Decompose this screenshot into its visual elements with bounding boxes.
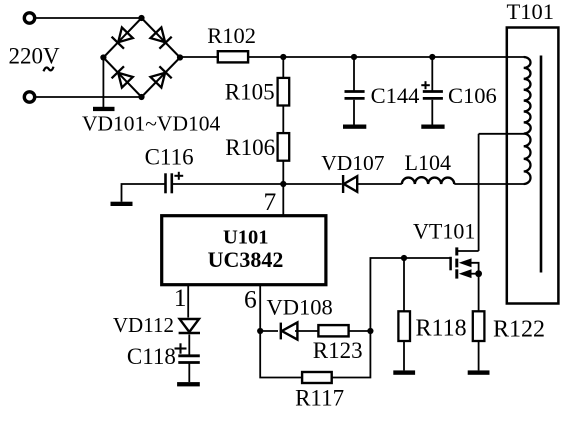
svg-text:T101: T101 [507, 0, 555, 24]
resistor R106 [278, 133, 290, 161]
terminal bottom [24, 92, 34, 102]
svg-text:R102: R102 [207, 23, 256, 48]
svg-text:VT101: VT101 [413, 218, 475, 243]
wire top terminal to bridge top [35, 17, 141, 19]
wire R123 node up to gate wire [370, 258, 450, 331]
inductor L104 [402, 177, 455, 184]
VT101 source arrow lower [459, 269, 472, 278]
svg-text:VD108: VD108 [267, 295, 333, 320]
node bridge top [138, 15, 144, 21]
VT101 lower arrow lead [472, 273, 479, 275]
resistor R105 [278, 78, 290, 106]
svg-text:VD112: VD112 [113, 313, 174, 337]
diode VD102 (top-right arm, cathode to right node) [150, 27, 172, 49]
wire VD108 to R123 [295, 330, 318, 332]
wire C144 from bus [353, 57, 355, 91]
svg-text:7: 7 [264, 187, 277, 216]
label ~ under 220V [44, 67, 54, 72]
node pin6 junction [257, 328, 263, 334]
node bridge left [100, 54, 106, 60]
ground (R122) [468, 370, 490, 374]
node bus/C106 [429, 54, 435, 60]
svg-text:R117: R117 [295, 385, 344, 410]
op-amp U101 box [162, 216, 326, 285]
svg-text:1: 1 [174, 283, 187, 312]
wire C116 left to ground [122, 184, 165, 202]
resistor R102 [218, 51, 248, 62]
ground (C144) [343, 125, 366, 129]
svg-text:VD107: VD107 [321, 151, 385, 175]
wire C106 from bus [431, 57, 433, 91]
svg-text:VD101~VD104: VD101~VD104 [82, 112, 220, 136]
node bus/C144 [351, 54, 357, 60]
diode VD103 (bottom-left arm, cathode to left node) [112, 66, 134, 88]
wire bridge right node to R102 [180, 56, 218, 58]
VT101 source arrow upper [459, 258, 472, 267]
diode VD104 (bottom-right arm, cathode to right node) [150, 66, 172, 88]
capacitor C118 [178, 356, 200, 363]
svg-text:R106: R106 [225, 135, 275, 160]
ground (R118) [393, 370, 415, 374]
node bus/R105 [280, 54, 286, 60]
wire R117 to right riser [332, 331, 371, 378]
svg-text:C118: C118 [127, 344, 176, 369]
wire tap to drain riser [479, 133, 524, 135]
wire R118 from gate node [403, 258, 405, 311]
wire source to R122 [478, 274, 480, 312]
VT101 drain lead [458, 250, 479, 252]
pin 1 wire [187, 285, 189, 318]
node gate/R118 [401, 255, 407, 261]
diode VD108 [281, 322, 298, 339]
ground (C118) [177, 382, 200, 386]
wire bottom terminal to bridge bottom [35, 96, 141, 98]
wire R123 to right node [349, 330, 371, 332]
bridge rectifier VD101~VD104 [103, 18, 180, 97]
VT101 gate electrode [449, 257, 452, 271]
svg-text:C144: C144 [371, 83, 420, 108]
wire VD112 to C118 [188, 335, 190, 356]
svg-text:C116: C116 [145, 144, 194, 169]
svg-text:6: 6 [244, 284, 257, 313]
capacitor C116 [166, 173, 172, 193]
svg-text:R122: R122 [493, 317, 545, 343]
wire C116 right plate to node 7 [171, 183, 283, 185]
ground (C116) [111, 202, 133, 206]
wire node7 to VD107 [283, 183, 341, 185]
svg-text:220V: 220V [9, 44, 61, 69]
plus sign C106 [421, 81, 430, 89]
wire R118 to ground [403, 341, 405, 370]
resistor R122 [473, 311, 485, 341]
svg-text:R118: R118 [416, 316, 467, 342]
wire bridge left node to ground [102, 58, 104, 108]
T101 core [540, 56, 543, 273]
wire drain riser [478, 134, 480, 251]
diode VD112 [179, 319, 200, 333]
resistor R117 [302, 372, 332, 383]
wire R106 to node 7 [282, 161, 284, 184]
node 7 junction [280, 181, 286, 187]
terminal top [24, 13, 34, 23]
wire L104 to T101 winding bottom [454, 183, 524, 185]
svg-text:U101: U101 [223, 227, 269, 249]
VT101 upper arrow lead [472, 263, 479, 274]
wire node 7 down to pin 7 [282, 184, 284, 216]
resistor R118 [398, 311, 410, 341]
pin 6 wire [259, 285, 261, 331]
capacitor C144 [345, 92, 365, 99]
node R123/R117 [367, 328, 373, 334]
node bridge bottom [138, 94, 144, 100]
plus sign C118 [175, 343, 187, 353]
ground (bridge) [93, 107, 115, 111]
ground (C106) [421, 125, 444, 129]
wire R105 to R106 [282, 106, 284, 134]
VT101 channel segments [455, 247, 458, 278]
svg-text:C106: C106 [448, 83, 497, 108]
svg-text:L104: L104 [405, 150, 451, 175]
wire pin6 to VD108 [260, 330, 278, 332]
diode VD107 [343, 175, 357, 193]
svg-text:UC3842: UC3842 [208, 247, 284, 272]
svg-text:R105: R105 [225, 79, 275, 104]
plus sign C116 [174, 172, 183, 180]
node bridge right [177, 54, 183, 60]
wire VD107 to L104 [358, 183, 402, 185]
wire bus to R105 [282, 57, 284, 78]
diode VD101 (top-left arm, cathode to left node) [112, 27, 134, 49]
node source [475, 270, 482, 277]
wire R102 to T101 (main bus) [248, 56, 524, 58]
wire pin6 down and R117 loop [260, 331, 302, 378]
svg-text:R123: R123 [313, 338, 363, 363]
capacitor C106 [423, 92, 443, 99]
wire R122 to ground [478, 341, 480, 370]
T101 primary winding [524, 57, 531, 184]
wire C118 to ground [188, 364, 190, 383]
resistor R123 [318, 325, 348, 336]
transformer T101 box [507, 28, 559, 304]
